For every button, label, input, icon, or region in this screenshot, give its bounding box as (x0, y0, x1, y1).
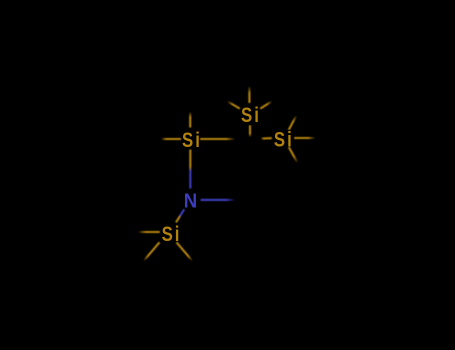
bond Si1-methyl left (148, 138, 181, 140)
bond Si4-methyl down-left (142, 242, 159, 262)
bond N-C4 (ring bottom) (201, 199, 250, 201)
bond Si2-methyl up-right (260, 98, 276, 108)
svg-text:Si: Si (162, 223, 182, 246)
svg-text:N: N (184, 191, 197, 213)
bond N-Si4 (176, 209, 184, 222)
bond Si2-methyl up-left (222, 98, 239, 108)
bond Si4-methyl down-right (177, 242, 194, 262)
bond Si1-N (ring left) (189, 150, 191, 189)
bond Si3-methyl up-right (289, 111, 299, 130)
bond C3-C4 (ring right, carbon-carbon, invisible on black) (249, 139, 251, 200)
bond Si1-methyl up (189, 107, 191, 128)
bond Si2-methyl up (248, 83, 250, 103)
bond Si1-C3 (ring top) (200, 138, 250, 140)
bond Si3-methyl down-right (289, 147, 299, 165)
svg-text:Si: Si (182, 129, 202, 152)
svg-text:Si: Si (274, 129, 294, 152)
svg-text:Si: Si (241, 104, 261, 127)
bond Si3-methyl right (294, 137, 316, 139)
bond C3-Si3 (250, 137, 272, 140)
bond C3-Si2 (249, 125, 251, 139)
bond Si4-methyl left (137, 231, 160, 233)
